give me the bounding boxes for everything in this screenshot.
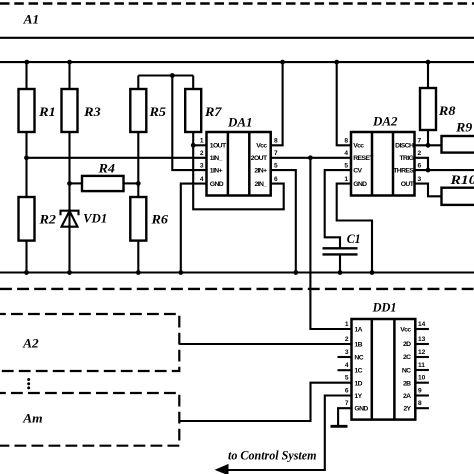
svg-text:GND: GND xyxy=(353,181,367,188)
svg-text:1: 1 xyxy=(200,137,204,144)
svg-text:DISCH: DISCH xyxy=(395,143,414,150)
svg-text:8: 8 xyxy=(418,400,422,407)
svg-text:5: 5 xyxy=(344,162,348,169)
svg-text:CV: CV xyxy=(353,168,362,175)
svg-text:RESET: RESET xyxy=(353,155,374,162)
svg-text:6: 6 xyxy=(274,176,278,183)
svg-text:5: 5 xyxy=(345,375,349,382)
svg-text:11: 11 xyxy=(418,362,425,369)
svg-text:R3: R3 xyxy=(83,105,101,119)
svg-text:2Y: 2Y xyxy=(403,405,411,412)
svg-text:Vcc: Vcc xyxy=(256,143,267,150)
svg-text:VD1: VD1 xyxy=(83,212,107,226)
svg-text:7: 7 xyxy=(418,137,422,144)
svg-text:GND: GND xyxy=(210,181,224,188)
svg-text:R4: R4 xyxy=(97,162,115,176)
svg-text:2: 2 xyxy=(200,150,204,157)
svg-text:1B: 1B xyxy=(354,341,362,348)
svg-text:DD1: DD1 xyxy=(372,301,397,315)
svg-text:9: 9 xyxy=(418,388,422,395)
svg-text:8: 8 xyxy=(344,137,348,144)
svg-text:R10: R10 xyxy=(449,173,474,187)
svg-text:1IN_: 1IN_ xyxy=(210,155,223,162)
svg-text:2B: 2B xyxy=(403,380,411,387)
svg-text:3: 3 xyxy=(418,176,422,183)
svg-text:1D: 1D xyxy=(354,380,362,387)
svg-text:A2: A2 xyxy=(22,337,39,351)
svg-text:1IN+: 1IN+ xyxy=(210,168,223,175)
svg-text:1: 1 xyxy=(345,321,349,328)
svg-text:2: 2 xyxy=(345,336,349,343)
svg-text:2: 2 xyxy=(418,150,422,157)
svg-text:13: 13 xyxy=(418,336,426,343)
svg-text:DA2: DA2 xyxy=(372,115,398,129)
svg-text:Vcc: Vcc xyxy=(353,143,364,150)
svg-text:3: 3 xyxy=(200,162,204,169)
svg-text:R6: R6 xyxy=(150,212,168,226)
svg-text:10: 10 xyxy=(418,375,426,382)
svg-text:NC: NC xyxy=(354,354,363,361)
svg-text:R2: R2 xyxy=(38,212,56,226)
svg-text:THRES: THRES xyxy=(393,168,414,175)
svg-text:R5: R5 xyxy=(148,105,166,119)
svg-text:OUT: OUT xyxy=(401,181,415,188)
svg-text:2C: 2C xyxy=(403,354,411,361)
svg-text:NC: NC xyxy=(402,368,411,375)
svg-text:4: 4 xyxy=(345,362,349,369)
svg-text:2IN_: 2IN_ xyxy=(255,181,268,188)
svg-text:Am: Am xyxy=(22,412,43,426)
svg-text:8: 8 xyxy=(274,137,278,144)
svg-text:GND: GND xyxy=(354,406,368,413)
svg-text:2OUT: 2OUT xyxy=(251,155,268,162)
svg-text:2A: 2A xyxy=(403,393,411,400)
svg-text:6: 6 xyxy=(345,388,349,395)
svg-text:2D: 2D xyxy=(403,341,411,348)
svg-text:R7: R7 xyxy=(204,105,222,119)
svg-text:3: 3 xyxy=(345,349,349,356)
svg-text:DA1: DA1 xyxy=(227,116,253,130)
svg-text:1: 1 xyxy=(344,176,348,183)
svg-text:to Control System: to Control System xyxy=(228,448,317,463)
svg-text:14: 14 xyxy=(418,321,426,328)
svg-text:1C: 1C xyxy=(354,368,362,375)
svg-text:1OUT: 1OUT xyxy=(210,143,227,150)
svg-text:R8: R8 xyxy=(438,104,456,118)
svg-text:TRIG: TRIG xyxy=(399,155,413,162)
svg-text:6: 6 xyxy=(418,162,422,169)
svg-text:7: 7 xyxy=(274,150,278,157)
svg-text:1A: 1A xyxy=(354,327,362,334)
svg-text:4: 4 xyxy=(200,176,204,183)
svg-text:7: 7 xyxy=(345,400,349,407)
svg-text:1Y: 1Y xyxy=(354,393,362,400)
svg-text:Vcc: Vcc xyxy=(400,327,411,334)
svg-text:12: 12 xyxy=(418,349,426,356)
svg-text:R9: R9 xyxy=(455,121,473,135)
svg-text:2IN+: 2IN+ xyxy=(254,168,267,175)
svg-text:5: 5 xyxy=(274,162,278,169)
svg-text:4: 4 xyxy=(344,150,348,157)
svg-text:C1: C1 xyxy=(347,232,361,246)
svg-text:A1: A1 xyxy=(23,13,40,27)
svg-text:R1: R1 xyxy=(38,105,56,119)
